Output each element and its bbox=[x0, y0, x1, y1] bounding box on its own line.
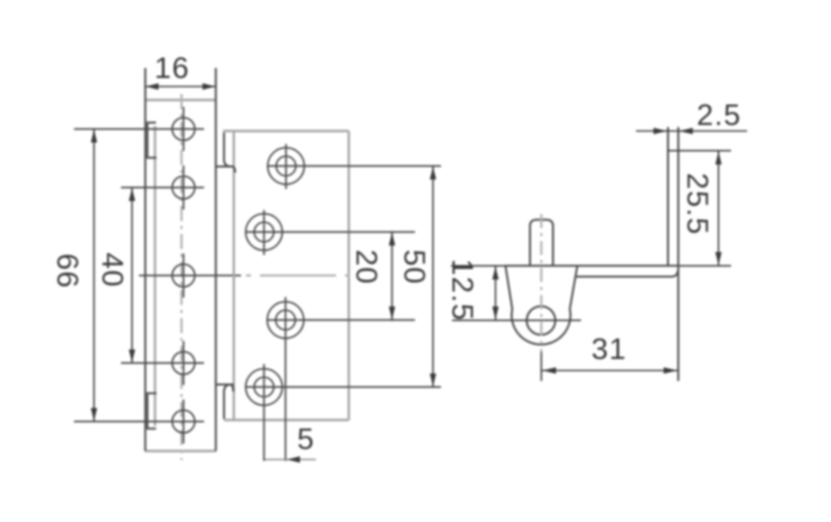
svg-text:5: 5 bbox=[297, 423, 315, 456]
svg-text:16: 16 bbox=[154, 52, 189, 85]
svg-text:2.5: 2.5 bbox=[697, 99, 742, 132]
svg-text:20: 20 bbox=[350, 249, 383, 284]
svg-text:66: 66 bbox=[51, 253, 84, 288]
svg-text:31: 31 bbox=[591, 333, 626, 366]
svg-text:25.5: 25.5 bbox=[681, 173, 714, 235]
svg-text:40: 40 bbox=[96, 252, 129, 287]
svg-text:12.5: 12.5 bbox=[446, 259, 479, 321]
svg-text:50: 50 bbox=[398, 249, 431, 284]
